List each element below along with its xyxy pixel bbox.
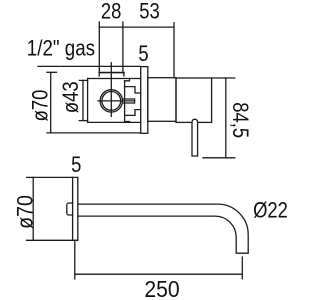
- svg-text:1/2" gas: 1/2" gas: [27, 36, 95, 61]
- svg-text:Ø22: Ø22: [253, 198, 288, 223]
- svg-text:28: 28: [101, 0, 122, 24]
- svg-text:5: 5: [71, 152, 81, 177]
- svg-text:ø43: ø43: [58, 81, 83, 113]
- svg-text:84,5: 84,5: [228, 102, 253, 138]
- svg-text:5: 5: [138, 41, 148, 66]
- svg-text:250: 250: [144, 276, 179, 300]
- svg-text:53: 53: [139, 0, 160, 24]
- svg-text:ø70: ø70: [28, 90, 53, 122]
- svg-text:ø70: ø70: [13, 195, 38, 229]
